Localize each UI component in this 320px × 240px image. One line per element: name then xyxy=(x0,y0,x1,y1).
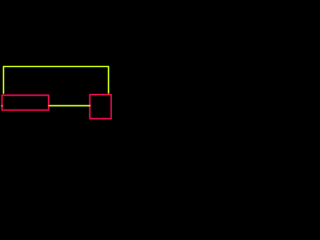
component U2 box xyxy=(90,95,111,119)
wire net1 top routed segment xyxy=(4,67,109,94)
component U1 box xyxy=(2,95,49,110)
pin endpoint dot on U1 left edge xyxy=(1,105,2,106)
wire net2 between U1 and U2 xyxy=(49,105,91,107)
